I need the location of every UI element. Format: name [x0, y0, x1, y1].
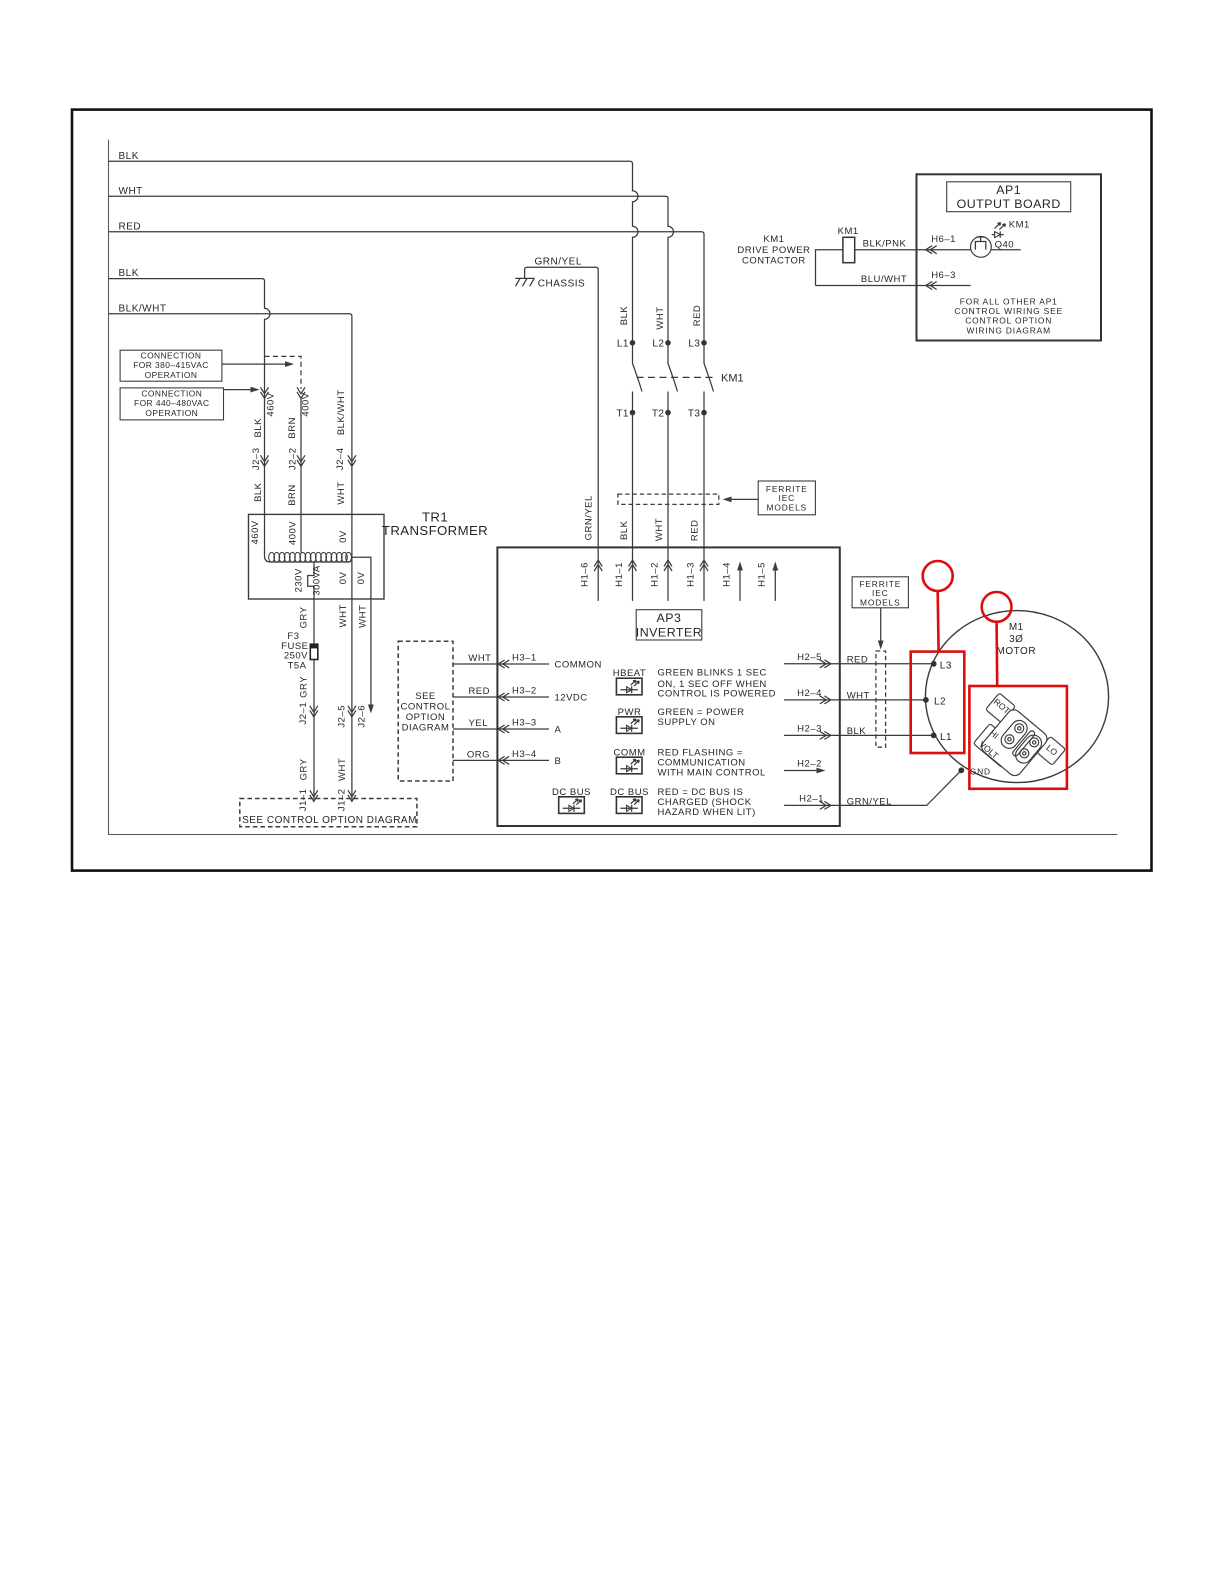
contactor KM1 linkage dashed — [637, 373, 744, 385]
svg-text:H3–2: H3–2 — [512, 686, 537, 697]
label GRY bottom — [299, 758, 310, 780]
label BLK column L1 — [619, 306, 630, 326]
label BLK above J2-3 — [253, 418, 264, 438]
label BRN below J2-2 — [287, 484, 298, 506]
svg-text:KM1: KM1 — [1009, 220, 1030, 231]
terminal H1-4 — [721, 562, 743, 601]
svg-text:T2: T2 — [652, 409, 665, 420]
relay coil KM1 — [838, 226, 859, 263]
LED HBEAT — [613, 668, 646, 695]
svg-text:H1–2: H1–2 — [649, 562, 660, 587]
svg-text:GND: GND — [970, 766, 991, 776]
svg-text:WHT: WHT — [337, 758, 348, 781]
svg-text:WHT: WHT — [654, 518, 665, 541]
motor terminal block — [964, 693, 1066, 791]
svg-text:L2: L2 — [652, 339, 664, 350]
svg-text:SEE: SEE — [415, 691, 436, 702]
svg-text:CONTROL IS POWERED: CONTROL IS POWERED — [658, 688, 776, 699]
ferrite IEC models box 2 — [852, 577, 908, 608]
svg-text:H3–4: H3–4 — [512, 749, 537, 760]
svg-text:OPERATION: OPERATION — [145, 408, 198, 418]
svg-text:WHT: WHT — [336, 481, 347, 504]
svg-text:WIRING DIAGRAM: WIRING DIAGRAM — [966, 325, 1050, 335]
svg-text:YEL: YEL — [469, 718, 488, 729]
svg-text:MODELS: MODELS — [767, 502, 807, 512]
contactor KM1 pole 3 — [704, 343, 714, 413]
LED DC BUS left — [552, 787, 591, 814]
node T1 — [616, 409, 635, 420]
wire KM1 coil link — [816, 250, 843, 286]
ferrite dashed tube horizontal — [618, 494, 719, 504]
svg-text:H3–3: H3–3 — [512, 718, 537, 729]
node motor GND — [958, 766, 991, 776]
AP3 inverter box — [497, 547, 839, 826]
svg-text:RED: RED — [690, 520, 701, 542]
svg-text:WHT: WHT — [119, 186, 143, 197]
svg-text:0V: 0V — [338, 571, 349, 584]
terminal H1-5 — [757, 562, 779, 601]
svg-text:SEE CONTROL OPTION DIAGRAM: SEE CONTROL OPTION DIAGRAM — [242, 815, 417, 826]
svg-text:230V: 230V — [293, 568, 304, 592]
svg-text:H2–3: H2–3 — [797, 724, 822, 735]
wire T1 to H1-1 — [632, 413, 634, 548]
svg-text:BLK: BLK — [119, 268, 139, 279]
svg-text:T3: T3 — [688, 409, 701, 420]
svg-text:BLK: BLK — [119, 151, 139, 162]
svg-text:J2–4: J2–4 — [335, 447, 346, 470]
transistor Q40 — [971, 237, 1021, 258]
svg-text:J2–1: J2–1 — [298, 702, 309, 725]
ferrite dashed tube vertical — [876, 651, 886, 747]
svg-text:GRY: GRY — [299, 606, 310, 628]
node L3 — [688, 339, 706, 350]
svg-text:GRN/YEL: GRN/YEL — [847, 796, 892, 807]
svg-text:12VDC: 12VDC — [555, 693, 588, 704]
svg-text:0V: 0V — [356, 571, 367, 584]
wire YEL H3-3 — [453, 718, 562, 736]
svg-text:LO: LO — [1044, 743, 1059, 758]
label WHT wire J2-6 upper — [358, 605, 369, 628]
wire GRN/YEL chassis to H1-6 — [525, 257, 599, 548]
svg-text:J2–3: J2–3 — [251, 447, 262, 470]
svg-text:H1–6: H1–6 — [580, 562, 591, 587]
svg-text:BRN: BRN — [287, 417, 298, 439]
svg-text:BLK/PNK: BLK/PNK — [863, 238, 907, 249]
label 0V tap top — [338, 530, 349, 543]
label WHT below J2-4 — [336, 481, 347, 504]
wire WHT bus (to L2) — [109, 186, 674, 343]
LED PWR — [616, 707, 642, 733]
svg-text:H1–1: H1–1 — [614, 562, 625, 587]
svg-text:0V: 0V — [338, 530, 349, 543]
transformer primary winding — [269, 552, 352, 562]
svg-text:J1–1: J1–1 — [298, 788, 309, 811]
wire WHT H3-1 — [453, 653, 602, 671]
wire BLK/WHT bus (to TR1 0V / J1-2) — [109, 303, 352, 799]
svg-text:H2–4: H2–4 — [797, 688, 822, 699]
svg-text:OPTION: OPTION — [406, 712, 445, 723]
svg-text:HAZARD WHEN LIT): HAZARD WHEN LIT) — [658, 807, 756, 818]
svg-text:AP3: AP3 — [657, 611, 682, 625]
note COMM — [658, 747, 766, 778]
label WHT wire J2-5 upper — [338, 604, 349, 627]
svg-text:400V: 400V — [288, 521, 299, 545]
svg-text:WHT: WHT — [358, 605, 369, 628]
sheet inner border — [109, 140, 1118, 835]
label KM1 drive power contactor — [737, 234, 810, 266]
node T3 — [688, 409, 707, 420]
svg-text:CONTROL: CONTROL — [401, 702, 451, 713]
label 230V — [293, 568, 304, 592]
wire BLK/PNK H6-1 — [855, 234, 971, 254]
node motor L2 — [923, 696, 946, 707]
red circle callout 2 — [982, 592, 1012, 686]
node T2 — [652, 409, 671, 420]
motor M1 circle — [925, 611, 1108, 783]
svg-text:BLK: BLK — [619, 306, 630, 326]
LED DC BUS right — [610, 787, 649, 814]
svg-text:BLK/WHT: BLK/WHT — [119, 303, 167, 314]
connector J1-2 — [337, 788, 356, 811]
label BLK column lower — [619, 520, 630, 540]
terminal H2-5 wire RED to motor L3 — [784, 652, 934, 668]
svg-text:H1–3: H1–3 — [685, 562, 696, 587]
label 0V lower right — [356, 571, 367, 584]
svg-text:WHT: WHT — [338, 604, 349, 627]
label GRY upper — [299, 606, 310, 628]
wire T2 to H1-2 — [667, 413, 669, 548]
svg-text:RED: RED — [692, 305, 703, 327]
svg-text:CONNECTION: CONNECTION — [141, 351, 202, 361]
svg-text:OPERATION: OPERATION — [145, 370, 198, 380]
note DC BUS — [658, 787, 756, 818]
svg-text:H2–1: H2–1 — [799, 794, 824, 805]
label WHT bottom — [337, 758, 348, 781]
svg-text:OUTPUT BOARD: OUTPUT BOARD — [957, 197, 1061, 211]
label BLK below J2-3 — [253, 482, 264, 502]
note HBEAT — [658, 667, 776, 699]
svg-text:GRY: GRY — [299, 676, 310, 698]
svg-text:WHT: WHT — [468, 653, 491, 664]
svg-text:B: B — [555, 756, 562, 767]
svg-text:DRIVE POWER: DRIVE POWER — [737, 245, 810, 256]
svg-text:3Ø: 3Ø — [1009, 634, 1023, 645]
svg-text:460V: 460V — [250, 520, 261, 544]
svg-text:H1–4: H1–4 — [721, 562, 732, 587]
connection box 440-480VAC — [120, 388, 223, 420]
svg-text:CHASSIS: CHASSIS — [538, 279, 585, 290]
connector J2-4 — [335, 447, 356, 470]
svg-text:L1: L1 — [940, 732, 952, 743]
node motor L3 — [931, 660, 952, 671]
terminal H1-2 — [649, 547, 672, 601]
svg-text:MODELS: MODELS — [860, 597, 900, 607]
note PWR — [658, 707, 745, 728]
svg-text:J2–2: J2–2 — [288, 447, 299, 470]
wire GRY from 230V tap to J1-1 — [313, 599, 315, 800]
wire J2-6 stub with arrow — [356, 705, 374, 728]
label WHT column lower — [654, 518, 665, 541]
dashed box SEE CONTROL OPTION DIAGRAM middle — [398, 641, 453, 781]
svg-text:KM1: KM1 — [721, 373, 744, 385]
svg-text:FOR 440–480VAC: FOR 440–480VAC — [134, 398, 210, 408]
svg-text:RED: RED — [119, 221, 142, 232]
label BLK/WHT above J2-4 — [336, 389, 347, 435]
connector J2-2 — [288, 447, 305, 470]
diode and KM1 pointer — [992, 220, 1030, 238]
svg-text:COMMON: COMMON — [555, 660, 602, 671]
wire BLK bus 1 (to L1) — [109, 151, 638, 343]
chassis ground symbol — [515, 278, 585, 289]
connector 400V chevron — [297, 387, 311, 416]
red box callout L1 L2 L3 — [911, 652, 965, 753]
LED COMM — [613, 747, 645, 773]
AP3 inverter label — [636, 610, 702, 640]
label 300VA — [312, 565, 323, 595]
svg-text:GRY: GRY — [299, 758, 310, 780]
connector J2-5 — [337, 705, 356, 728]
svg-text:SUPPLY ON: SUPPLY ON — [658, 717, 716, 728]
ferrite IEC models box 1 — [758, 481, 815, 515]
svg-text:DIAGRAM: DIAGRAM — [402, 723, 450, 734]
svg-text:BLU/WHT: BLU/WHT — [861, 274, 907, 285]
terminal H2-1 wire GRN/YEL to motor GND — [784, 770, 961, 809]
svg-text:H2–5: H2–5 — [797, 652, 822, 663]
svg-text:CONTROL OPTION: CONTROL OPTION — [965, 316, 1052, 326]
connector J2-3 — [251, 447, 268, 470]
terminal H2-2 stub — [784, 759, 826, 774]
svg-text:FOR 380–415VAC: FOR 380–415VAC — [133, 360, 209, 370]
node motor L1 — [931, 732, 952, 743]
node L2 — [652, 339, 670, 350]
label GRN/YEL column — [584, 495, 595, 540]
svg-text:TRANSFORMER: TRANSFORMER — [382, 523, 488, 538]
svg-text:A: A — [555, 725, 562, 736]
wire RED H3-2 — [453, 686, 588, 704]
red box callout terminal block — [969, 686, 1067, 789]
svg-text:J2–6: J2–6 — [356, 705, 367, 728]
svg-text:WHT: WHT — [847, 690, 870, 701]
svg-text:KM1: KM1 — [838, 226, 859, 237]
svg-text:M1: M1 — [1009, 622, 1024, 633]
svg-text:FOR ALL OTHER AP1: FOR ALL OTHER AP1 — [960, 296, 1058, 306]
svg-text:RED: RED — [847, 655, 869, 666]
wire BLU/WHT H6-3 — [816, 270, 971, 290]
svg-text:KM1: KM1 — [763, 234, 784, 245]
connection box 380-415VAC — [120, 350, 222, 381]
fuse F3 — [281, 631, 318, 671]
wire ORG H3-4 — [453, 749, 561, 767]
svg-text:WHT: WHT — [655, 306, 666, 329]
terminal H1-1 — [614, 547, 637, 601]
dashed 380-415 option wire (BRN to TR1 400V) — [265, 356, 302, 552]
terminal H1-6 — [580, 547, 603, 601]
label WHT column L2 — [655, 306, 666, 329]
dashed box SEE CONTROL OPTION DIAGRAM bottom — [240, 799, 417, 827]
red circle callout 1 — [923, 561, 953, 652]
svg-text:CONTROL WIRING SEE: CONTROL WIRING SEE — [954, 306, 1063, 316]
svg-text:L3: L3 — [940, 660, 952, 671]
terminal H2-3 wire BLK to motor L1 — [784, 724, 934, 740]
svg-text:T5A: T5A — [288, 661, 307, 672]
svg-text:H6–1: H6–1 — [931, 234, 956, 245]
node 0V junction to second 0V wire (J2-6) — [352, 557, 371, 707]
label 400V tap — [288, 521, 299, 545]
svg-text:J1–2: J1–2 — [337, 788, 348, 811]
arrow 440-480VAC to 460V wire — [224, 387, 260, 393]
svg-text:BLK: BLK — [253, 418, 264, 438]
svg-text:RED: RED — [468, 686, 490, 697]
svg-text:BLK: BLK — [619, 520, 630, 540]
border frame — [72, 110, 1152, 871]
node L1 — [617, 339, 635, 350]
svg-text:T1: T1 — [616, 409, 629, 420]
label RED column L3 — [692, 305, 703, 327]
svg-text:INVERTER: INVERTER — [636, 626, 702, 640]
svg-text:H2–2: H2–2 — [797, 759, 822, 770]
arrow ferrite box 2 to tube — [878, 608, 884, 650]
arrow ferrite box 1 to tube — [723, 497, 759, 503]
svg-text:CONTACTOR: CONTACTOR — [742, 256, 806, 267]
svg-text:GRN/YEL: GRN/YEL — [584, 495, 595, 540]
connector J2-1 — [298, 702, 318, 725]
label 460V tap — [250, 520, 261, 544]
transformer TR1 box — [249, 510, 489, 599]
transformer 230V tap wire with jog — [308, 562, 314, 599]
note AP1 control wiring — [954, 296, 1063, 335]
svg-text:ORG: ORG — [467, 749, 490, 760]
svg-text:WITH MAIN CONTROL: WITH MAIN CONTROL — [658, 768, 766, 779]
wire T3 to H1-3 — [703, 413, 705, 548]
svg-text:GRN/YEL: GRN/YEL — [535, 257, 582, 268]
svg-text:H6–3: H6–3 — [931, 270, 956, 281]
svg-text:H1–5: H1–5 — [757, 562, 768, 587]
contactor KM1 pole 2 — [668, 343, 678, 413]
svg-text:BLK/WHT: BLK/WHT — [336, 389, 347, 435]
svg-text:300VA: 300VA — [312, 565, 323, 595]
svg-text:J2–5: J2–5 — [337, 705, 348, 728]
wire RED bus (to L3) — [109, 221, 704, 342]
arrow 380-415VAC to 400V wire — [222, 361, 294, 367]
svg-text:Q40: Q40 — [995, 240, 1014, 251]
AP1 output board box — [917, 174, 1102, 340]
svg-text:AP1: AP1 — [996, 183, 1021, 197]
AP1 label box — [947, 182, 1071, 212]
svg-text:L2: L2 — [934, 696, 946, 707]
svg-text:MOTOR: MOTOR — [997, 646, 1037, 657]
terminal H1-3 — [685, 547, 708, 601]
svg-text:400V: 400V — [300, 392, 311, 416]
svg-text:L1: L1 — [617, 339, 629, 350]
svg-text:CONNECTION: CONNECTION — [141, 389, 202, 399]
wire BLK bus 2 (to TR1 460V) — [109, 268, 271, 562]
connector 460V chevron — [261, 387, 277, 416]
contactor KM1 pole 1 — [633, 343, 643, 413]
svg-text:BRN: BRN — [287, 484, 298, 506]
connector J1-1 — [298, 788, 318, 811]
svg-text:BLK: BLK — [253, 482, 264, 502]
label 0V lower left — [338, 571, 349, 584]
svg-text:460V: 460V — [265, 392, 276, 416]
label GRY below fuse — [299, 676, 310, 698]
terminal H2-4 wire WHT to motor L2 — [784, 688, 926, 704]
svg-text:L3: L3 — [688, 339, 700, 350]
svg-text:GREEN BLINKS 1 SEC: GREEN BLINKS 1 SEC — [658, 667, 767, 678]
label BRN above J2-2 — [287, 417, 298, 439]
svg-text:BLK: BLK — [847, 726, 867, 737]
label RED column lower — [690, 520, 701, 542]
svg-text:H3–1: H3–1 — [512, 653, 537, 664]
